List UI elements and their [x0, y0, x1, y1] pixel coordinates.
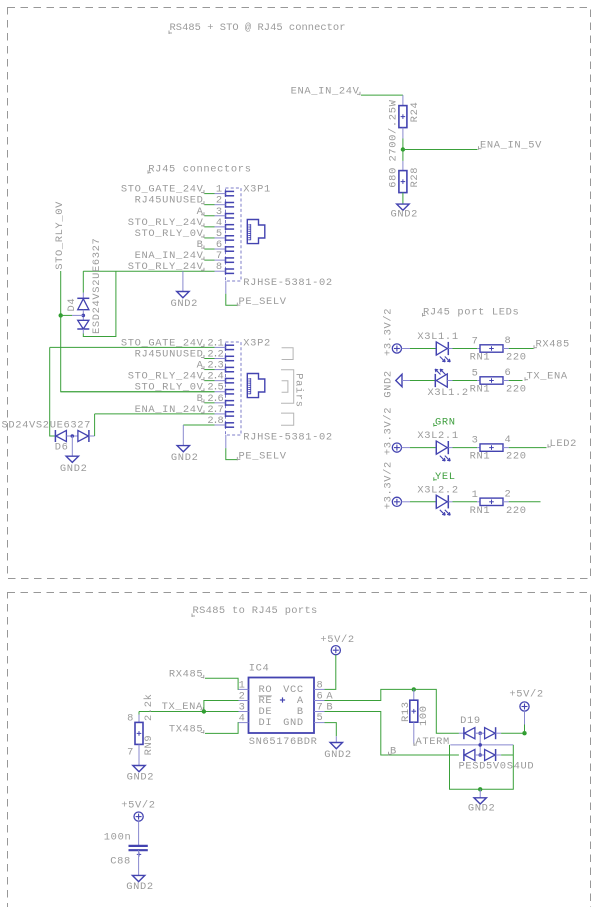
wire to X3P2 pin 2.3 — [204, 369, 214, 371]
wire LED X3L2.1 to resistor RN1 — [453, 447, 478, 449]
svg-text:DI: DI — [259, 717, 273, 729]
diode D4 internal center — [82, 310, 84, 321]
svg-text:GND2: GND2 — [391, 209, 419, 221]
svg-text:R28: R28 — [409, 167, 421, 188]
svg-text:7: 7 — [472, 336, 479, 348]
wire to X3P2 pin 2.2 — [204, 357, 214, 359]
resistor RN1 220 pins 7-8 — [480, 345, 503, 352]
svg-text:8: 8 — [216, 261, 223, 273]
svg-text:GND2: GND2 — [126, 881, 154, 893]
wire RN1 output stub — [509, 501, 541, 503]
wire to X3P1 pin 8 — [83, 270, 214, 272]
pairs bracket rows 2.3-2.6 — [281, 370, 294, 404]
wire to X3P2 pin 2.5 — [61, 391, 215, 393]
X3P1 pin 2 — [225, 202, 227, 208]
connector X3P2 body — [226, 342, 242, 435]
wire +3.3V/2 to LED X3L2.2 — [402, 501, 411, 503]
wire +3.3V/2 to LED X3L1.1 — [402, 348, 411, 350]
wire D6 right to ENA_IN_24V (X3P2 2.7) — [89, 435, 95, 437]
svg-text:R13: R13 — [400, 701, 412, 722]
IC4 pin 7 — [314, 711, 325, 713]
D19 upper-left diode — [459, 732, 464, 734]
X3P2 RJ45 jack icon — [247, 374, 264, 398]
X3P1 shield pin to PE_SELV — [225, 281, 227, 294]
svg-text:X3L2.1: X3L2.1 — [417, 430, 458, 442]
svg-text:X3L1.2: X3L1.2 — [428, 387, 469, 399]
svg-text:TX485: TX485 — [169, 724, 203, 736]
resistor RN9 2.2k pins 8-7 — [135, 722, 143, 744]
ground GND2 below RN9 — [133, 766, 145, 772]
wire to X3P1 pin 5 — [204, 237, 214, 239]
svg-text:RJ45 connectors: RJ45 connectors — [148, 164, 251, 176]
wire to X3P2 pin 2.4 — [204, 380, 214, 382]
D19 internal junction lower — [478, 753, 482, 757]
svg-text:RJHSE-5381-02: RJHSE-5381-02 — [243, 277, 333, 289]
svg-text:GND2: GND2 — [60, 463, 88, 475]
svg-text:PE_SELV: PE_SELV — [239, 450, 287, 462]
svg-text:220: 220 — [506, 384, 527, 396]
pairs bracket rows 2.1-2.2 — [282, 348, 294, 360]
LED X3L1.2 — [434, 374, 436, 387]
svg-text:220: 220 — [506, 505, 527, 517]
svg-text:RJ45UNUSED: RJ45UNUSED — [135, 195, 204, 207]
junction net A at R13 — [412, 687, 416, 691]
IC4 pin 1 — [239, 688, 249, 690]
svg-text:C88: C88 — [110, 855, 131, 867]
wire RX485 to IC4 pin1 — [205, 678, 239, 689]
svg-text:TX_ENA: TX_ENA — [527, 371, 568, 383]
svg-text:ENA_IN_5V: ENA_IN_5V — [480, 140, 542, 152]
diode D4 upper (cathode up) — [77, 297, 89, 299]
svg-text:D6: D6 — [55, 442, 69, 454]
wire TX_ENA junction to IC4 pin2 — [204, 701, 239, 712]
wire to X3P2 pin 2.6 — [204, 402, 214, 404]
wire IC4 pin5 to ground — [325, 723, 337, 737]
diode D6 left half (cathode left) — [54, 430, 56, 442]
X3P1 RJ45 jack icon — [247, 220, 264, 244]
svg-text:RS485 to RJ45 ports: RS485 to RJ45 ports — [193, 605, 318, 617]
svg-text:7: 7 — [127, 747, 134, 759]
resistor RN1 220 pins 5-6 — [480, 377, 503, 384]
wire to X3P1 pin 1 — [204, 193, 214, 195]
svg-text:5: 5 — [472, 368, 479, 380]
ground GND2 below D19 — [474, 798, 486, 804]
svg-text:X3L2.2: X3L2.2 — [417, 484, 458, 496]
junction at D4 center tap — [59, 313, 63, 317]
svg-text:IC4: IC4 — [249, 662, 270, 674]
resistor RN1 220 pins 3-4 — [480, 444, 503, 451]
X3P2 pin 2.4 — [225, 378, 227, 384]
svg-text:RJ45UNUSED: RJ45UNUSED — [135, 348, 204, 360]
svg-text:YEL: YEL — [435, 471, 456, 483]
LED X3L2.1 — [435, 441, 437, 454]
D19 upper-right diode — [485, 728, 496, 739]
svg-text:GND2: GND2 — [171, 298, 199, 310]
LED X3L1.1 — [435, 342, 437, 355]
sheet frame: bottom section dashed border — [8, 593, 591, 907]
svg-text:2700/.25W: 2700/.25W — [387, 99, 399, 161]
svg-text:LED2: LED2 — [550, 438, 578, 450]
svg-text:4: 4 — [239, 713, 246, 725]
svg-text:8: 8 — [127, 713, 134, 725]
LED X3L2.2 — [435, 495, 437, 508]
svg-text:STO_RLY_0V: STO_RLY_0V — [135, 228, 204, 240]
diode D4 lower (cathode down) — [78, 320, 89, 329]
ground GND2 below C88 — [132, 875, 144, 881]
svg-text:2: 2 — [505, 488, 512, 500]
diode D6 center tap — [66, 435, 78, 437]
sheet frame: top section dashed border — [8, 8, 591, 579]
svg-text:GND: GND — [283, 717, 304, 729]
wire LED X3L1.1 to resistor RN1 — [453, 348, 478, 350]
wire junction to R28 — [402, 150, 404, 161]
resistor RN1 220 pins 1-2 — [480, 498, 503, 505]
IC4 pin 8 — [314, 688, 325, 690]
junction TX_ENA — [202, 709, 206, 713]
wire RN1 to TX_ENA — [509, 380, 523, 382]
svg-text:+5V/2: +5V/2 — [509, 688, 543, 700]
svg-text:B: B — [390, 745, 397, 757]
wire TX485 to IC4 pin4 — [205, 723, 239, 734]
svg-text:X3P1: X3P1 — [243, 183, 271, 195]
IC4 pin 5 — [314, 722, 325, 724]
svg-text:SD24VS2UE6327: SD24VS2UE6327 — [2, 420, 92, 432]
svg-text:PE_SELV: PE_SELV — [239, 296, 287, 308]
svg-text:RN1: RN1 — [470, 505, 491, 517]
X3P2 pin 2.3 — [225, 366, 227, 372]
wire +3.3V/2 to LED X3L2.1 — [402, 447, 411, 449]
ground GND2 on X3P2 pin 2.8 wire — [182, 425, 184, 446]
svg-text:ENA_IN_24V: ENA_IN_24V — [291, 85, 360, 97]
svg-text:STO_RLY_0V: STO_RLY_0V — [54, 201, 66, 270]
wire STO_RLY_0V down to D4 center junction — [60, 271, 62, 315]
wire LED X3L1.2 to resistor RN1 — [453, 380, 478, 382]
svg-text:4: 4 — [505, 434, 512, 446]
resistor R13 100 — [410, 700, 418, 722]
wire D19 lower row to ground rail — [501, 754, 513, 756]
wire junction to ENA_IN_5V label — [403, 149, 478, 151]
op-amp/transceiver IC4 SN65176BDR body — [249, 678, 315, 734]
X3P1 pin 6 — [225, 246, 227, 252]
ground GND2 on X3P1 pin 8 wire — [182, 271, 184, 291]
svg-text:X3P2: X3P2 — [243, 337, 271, 349]
IC4 pin 6 — [314, 700, 325, 702]
svg-text:RN1: RN1 — [470, 451, 491, 463]
svg-text:ENA_IN_24V: ENA_IN_24V — [135, 404, 204, 416]
wire D4 top lead — [82, 271, 84, 293]
svg-text:RJ45 port LEDs: RJ45 port LEDs — [423, 307, 519, 319]
svg-text:SN65176BDR: SN65176BDR — [249, 736, 318, 748]
svg-text:RN9: RN9 — [143, 735, 155, 756]
connector X3P1 body — [226, 188, 242, 281]
svg-text:GND2: GND2 — [468, 803, 496, 815]
svg-text:RX485: RX485 — [169, 668, 203, 680]
diode D6 right half (cathode right) — [78, 430, 89, 441]
wire R28 to ground — [402, 193, 404, 205]
svg-text:D19: D19 — [460, 715, 481, 727]
IC4 pin 3 — [239, 711, 249, 713]
svg-text:220: 220 — [506, 451, 527, 463]
X3P1 pin 4 — [225, 224, 227, 230]
wire TX_ENA down to RN9 — [138, 712, 140, 715]
svg-text:3: 3 — [472, 435, 479, 447]
IC4 pin 2 — [239, 700, 249, 702]
svg-text:ESD24VS2UE6327: ESD24VS2UE6327 — [91, 238, 103, 334]
junction +5V/2 at D19 — [522, 731, 526, 735]
svg-text:100n: 100n — [104, 831, 132, 843]
X3P2 pin 2.6 — [225, 400, 227, 406]
ground GND2 below IC4 — [330, 743, 342, 749]
svg-text:680: 680 — [387, 167, 399, 188]
resistor R28 680 — [399, 171, 407, 193]
X3P2 pin 2.5 — [225, 389, 227, 395]
wire net B from IC4 pin7 to D19 — [325, 712, 459, 756]
svg-text:PESD5V0S4UD: PESD5V0S4UD — [459, 761, 535, 773]
X3P1 pin 1 — [225, 191, 227, 197]
pairs bracket rows 2.4-2.5 — [282, 381, 288, 393]
wire junction down to X3P2 pin 2.5 wire — [61, 315, 215, 391]
wire RN1 to RX485 — [509, 348, 534, 350]
D19 internal rail vertical — [479, 733, 481, 755]
wire D19 ground loop — [450, 745, 514, 789]
wire D4 bottom loop to STO_RLY_24V — [83, 271, 116, 336]
wire net A from IC4 pin6 to D19 — [325, 689, 459, 733]
svg-text:D4: D4 — [66, 298, 78, 312]
D19 internal rail horizontal — [450, 744, 513, 746]
resistor R24 2700/.25W — [399, 106, 407, 128]
svg-text:GND2: GND2 — [171, 452, 199, 464]
svg-text:R24: R24 — [409, 102, 421, 123]
X3P2 pin 2.2 — [225, 355, 227, 361]
X3P2 pin 2.7 — [225, 411, 227, 417]
IC4 pin 4 — [239, 722, 249, 724]
D19 internal junction upper — [478, 731, 482, 735]
svg-text:220: 220 — [506, 352, 527, 364]
svg-text:X3L1.1: X3L1.1 — [417, 331, 458, 343]
wire to X3P1 pin 6 — [204, 248, 214, 250]
svg-text:GND2: GND2 — [382, 370, 394, 398]
wire RN1 to LED2 — [509, 447, 547, 449]
junction node ENA_IN_5V — [401, 147, 405, 151]
svg-text:1: 1 — [472, 489, 479, 501]
wire to X3P1 pin 3 — [204, 215, 214, 217]
wire LED X3L2.2 to resistor RN1 — [453, 501, 478, 503]
svg-text:+5V/2: +5V/2 — [320, 634, 354, 646]
svg-text:+5V/2: +5V/2 — [121, 799, 155, 811]
svg-text:RN1: RN1 — [470, 352, 491, 364]
wire to X3P1 pin 7 — [204, 259, 214, 261]
svg-text:ATERM: ATERM — [416, 736, 450, 748]
X3P1 pin 3 — [225, 213, 227, 219]
X3P1 pin 7 — [225, 257, 227, 263]
svg-text:6: 6 — [505, 367, 512, 379]
svg-text:100: 100 — [418, 705, 430, 726]
X3P1 pin 8 — [225, 268, 227, 274]
wire R24 to junction — [402, 139, 404, 150]
wire ENA_IN_24V to R24 — [361, 94, 403, 96]
capacitor C88 100n — [129, 845, 148, 847]
svg-text:RX485: RX485 — [536, 339, 570, 351]
svg-text:8: 8 — [505, 335, 512, 347]
wire STO_GATE_24V from X3P2 pin2.1 down to D6 — [50, 347, 56, 436]
svg-text:Pairs: Pairs — [293, 373, 305, 407]
D19 lower-left diode — [463, 749, 465, 761]
wire TX_ENA to IC4 pin3 and RN9 — [139, 711, 239, 713]
svg-text:2.2k: 2.2k — [143, 693, 155, 721]
X3P2 shield pin to PE_SELV — [225, 435, 227, 448]
wire to X3P1 pin 4 — [204, 226, 214, 228]
wire to X3P2 pin 2.1 — [50, 346, 215, 348]
ground GND2 below D6 — [71, 436, 73, 456]
svg-text:STO_RLY_24V: STO_RLY_24V — [128, 261, 204, 273]
svg-text:GND2: GND2 — [127, 772, 155, 784]
junction D19 ground — [478, 787, 482, 791]
wire GND2 to LED X3L1.2 — [402, 380, 410, 382]
D19 lower-right diode — [485, 749, 496, 760]
pairs bracket rows 2.7-2.8 — [281, 413, 294, 425]
svg-text:GND2: GND2 — [324, 749, 352, 761]
svg-text:5: 5 — [317, 712, 324, 724]
wire +5V/2 to IC4 VCC pin 8 — [325, 655, 336, 690]
svg-text:RJHSE-5381-02: RJHSE-5381-02 — [243, 432, 333, 444]
X3P2 pin 2.8 — [225, 422, 227, 428]
wire to X3P2 pin 2.7 — [95, 413, 215, 415]
svg-text:RS485 + STO @ RJ45 connector: RS485 + STO @ RJ45 connector — [170, 22, 346, 34]
ground GND2 below R28 — [397, 204, 409, 210]
X3P1 pin 5 — [225, 235, 227, 241]
svg-text:GRN: GRN — [435, 417, 456, 429]
svg-text:RN1: RN1 — [470, 384, 491, 396]
wire D19 upper row to +5V/2 — [501, 732, 524, 734]
wire to X3P1 pin 2 — [204, 204, 214, 206]
wire to X3P2 pin 2.8 — [183, 424, 214, 426]
X3P2 pin 2.1 — [225, 344, 227, 350]
